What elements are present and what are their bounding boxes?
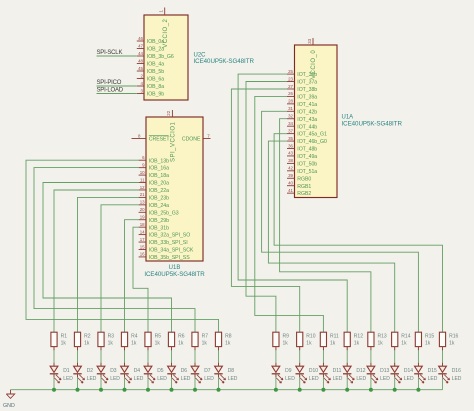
svg-text:1k: 1k — [225, 341, 231, 347]
svg-text:17: 17 — [140, 237, 145, 242]
svg-text:D15: D15 — [428, 368, 437, 374]
wire IOT_43a to R13 — [280, 119, 371, 333]
svg-text:R5: R5 — [155, 334, 162, 340]
U1A pin 40 RGB1 — [287, 181, 311, 190]
junction D13/GND — [369, 388, 373, 392]
resistor R3 1k — [98, 332, 114, 346]
svg-text:15: 15 — [140, 244, 145, 249]
U1B pin 18 IOB_31b — [139, 222, 169, 231]
LED D11 — [319, 366, 343, 383]
svg-text:26: 26 — [288, 91, 293, 96]
U1A pin 23 IOT_37a — [287, 76, 317, 85]
wire R15 to D15 — [417, 347, 419, 367]
svg-text:CRESET: CRESET — [149, 137, 171, 143]
svg-text:LED: LED — [452, 376, 462, 382]
resistor R9 1k — [273, 332, 289, 346]
U1A pin 37 IOT_45a_G1 — [287, 128, 327, 137]
svg-text:34: 34 — [288, 121, 293, 126]
IC U2C body ICE40UP5K-SG48ITR — [144, 15, 188, 100]
U1B pin 9 IOB_16a — [139, 162, 169, 171]
junction D2/GND — [76, 388, 80, 392]
svg-text:IOB_4a: IOB_4a — [147, 62, 164, 68]
wire R14 to D14 — [394, 347, 396, 367]
wire D12 to GND rail — [346, 374, 348, 390]
svg-text:1k: 1k — [178, 341, 184, 347]
junction D12/GND — [345, 388, 349, 392]
U1A pin 33 VCCIO_0 — [307, 38, 317, 79]
resistor R7 1k — [192, 332, 208, 346]
svg-text:IOB_31b: IOB_31b — [149, 225, 169, 231]
wire D10 to GND rail — [299, 374, 301, 390]
wire and label SPI-SCLK — [97, 50, 137, 56]
U1A pin 43 IOT_49a — [287, 151, 317, 160]
svg-text:R1: R1 — [61, 334, 68, 340]
svg-text:43: 43 — [288, 151, 293, 156]
svg-text:CDONE: CDONE — [182, 137, 201, 143]
svg-text:LED: LED — [380, 376, 390, 382]
svg-text:1k: 1k — [61, 341, 67, 347]
U1B pin 8 CRESET_B — [132, 133, 171, 142]
svg-text:R10: R10 — [306, 334, 315, 340]
svg-text:IOB_22a: IOB_22a — [149, 188, 169, 194]
resistor R15 1k — [415, 332, 434, 346]
svg-text:R12: R12 — [354, 334, 363, 340]
svg-text:44: 44 — [138, 51, 143, 56]
U1A pin 35 IOT_46b_G0 — [287, 136, 327, 145]
wire IOB_22a to R1 — [54, 190, 139, 332]
svg-text:1k: 1k — [131, 341, 137, 347]
U1B pin 19 IOB_29b — [139, 215, 169, 224]
svg-text:LED: LED — [63, 376, 73, 382]
svg-text:47: 47 — [138, 43, 143, 48]
LED D1 — [50, 366, 74, 383]
svg-text:27: 27 — [288, 84, 293, 89]
svg-text:SPI-PICO: SPI-PICO — [97, 80, 122, 86]
wire R6 to D6 — [171, 347, 173, 367]
U1A pin 25 IOT_36b — [287, 69, 317, 78]
U1B pin 21 IOB_23b — [139, 192, 169, 201]
wire D1 to GND rail — [53, 374, 55, 390]
U2C pin 4 IOB_8a — [137, 81, 164, 90]
svg-text:1k: 1k — [283, 341, 289, 347]
svg-text:IOB_5b: IOB_5b — [147, 69, 164, 75]
svg-text:IOB_6a: IOB_6a — [147, 77, 164, 83]
U2C pin 48 IOB_4a — [137, 58, 164, 67]
svg-text:1k: 1k — [84, 341, 90, 347]
svg-text:D1: D1 — [63, 368, 70, 374]
wire IOB_31b to R5 — [133, 227, 148, 332]
svg-text:R9: R9 — [283, 334, 290, 340]
U1A pin 41 RGB2 — [287, 188, 311, 197]
svg-text:LED: LED — [204, 376, 214, 382]
svg-text:19: 19 — [140, 215, 145, 220]
wire R3 to D3 — [100, 347, 102, 367]
svg-text:LED: LED — [356, 376, 366, 382]
svg-text:38: 38 — [288, 158, 293, 163]
svg-text:D7: D7 — [204, 368, 211, 374]
wire IOT_45a_G1 to R16 — [274, 134, 442, 333]
LED D5 — [144, 366, 168, 383]
svg-text:ICE40UP5K-SG48ITR: ICE40UP5K-SG48ITR — [194, 58, 255, 65]
U2C pin 47 IOB_2a — [137, 43, 164, 52]
U1B pin 7 CDONE — [182, 133, 211, 142]
wire R11 to D11 — [322, 347, 324, 367]
LED D8 — [214, 366, 238, 383]
svg-text:ICE40UP5K-SG48ITR: ICE40UP5K-SG48ITR — [342, 120, 403, 127]
svg-text:IOB_18a: IOB_18a — [149, 173, 169, 179]
wire D14 to GND rail — [394, 374, 396, 390]
svg-text:LED: LED — [157, 376, 167, 382]
wire D4 to GND rail — [124, 374, 126, 390]
svg-text:R8: R8 — [225, 334, 232, 340]
svg-text:IOB_9b: IOB_9b — [147, 92, 164, 98]
LED D15 — [414, 366, 438, 383]
svg-text:36: 36 — [288, 143, 293, 148]
svg-text:IOB_25b_G3: IOB_25b_G3 — [149, 210, 179, 216]
svg-text:48: 48 — [138, 58, 143, 63]
svg-text:IOT_41a: IOT_41a — [297, 102, 317, 108]
U1A pin 31 IOT_42b — [287, 106, 317, 115]
svg-text:IOT_51a: IOT_51a — [297, 169, 317, 175]
svg-text:IOT_43a: IOT_43a — [297, 117, 317, 123]
svg-text:40: 40 — [288, 181, 293, 186]
resistor R1 1k — [51, 332, 67, 346]
U1A pin 39 RGB0 — [287, 173, 311, 182]
U1B value ICE40UP5K-SG48ITR — [144, 271, 205, 278]
svg-text:11: 11 — [140, 177, 145, 182]
wire D16 to GND rail — [442, 374, 444, 390]
svg-text:IOT_37a: IOT_37a — [297, 80, 317, 86]
junction D11/GND — [321, 388, 325, 392]
U2C pin 3 IOB_9b — [137, 88, 164, 97]
svg-text:R14: R14 — [401, 334, 410, 340]
LED D10 — [296, 366, 320, 383]
svg-text:R4: R4 — [131, 334, 138, 340]
wire D6 to GND rail — [171, 374, 173, 390]
svg-text:16: 16 — [140, 252, 145, 257]
U1B pin 11 IOB_20a — [139, 177, 169, 186]
svg-text:25: 25 — [288, 69, 293, 74]
LED D14 — [391, 366, 415, 383]
svg-text:IOB_13b: IOB_13b — [149, 158, 169, 164]
U1A pin 34 IOT_44b — [287, 121, 317, 130]
svg-text:SPI_VCCIO1: SPI_VCCIO1 — [171, 121, 177, 162]
U2C pin 46 IOB_0a — [137, 36, 164, 45]
U1A pin 27 IOT_38b — [287, 84, 317, 93]
svg-text:D3: D3 — [110, 368, 117, 374]
svg-text:IOB_32a_SPI_SO: IOB_32a_SPI_SO — [149, 233, 190, 239]
U1B pin 20 IOB_25b_G3 — [139, 207, 179, 216]
wire IOB_20a to R6 — [43, 183, 172, 333]
svg-text:SPI-LOAD: SPI-LOAD — [97, 88, 124, 94]
svg-text:10: 10 — [140, 170, 145, 175]
LED D7 — [191, 366, 215, 383]
wire R1 to D1 — [53, 347, 55, 367]
svg-text:1k: 1k — [330, 341, 336, 347]
wire R7 to D7 — [194, 347, 196, 367]
svg-text:41: 41 — [288, 188, 293, 193]
svg-text:LED: LED — [428, 376, 438, 382]
resistor R16 1k — [439, 332, 458, 346]
LED D3 — [97, 366, 121, 383]
svg-text:D11: D11 — [333, 368, 342, 374]
wire D9 to GND rail — [275, 374, 277, 390]
wire D8 to GND rail — [218, 374, 220, 390]
wire D11 to GND rail — [322, 374, 324, 390]
junction D4/GND — [123, 388, 127, 392]
svg-text:IOT_38b: IOT_38b — [297, 87, 317, 93]
svg-text:IOT_42b: IOT_42b — [297, 109, 317, 115]
svg-text:LED: LED — [285, 376, 295, 382]
LED D9 — [272, 366, 296, 383]
svg-text:39: 39 — [288, 173, 293, 178]
wire D2 to GND rail — [77, 374, 79, 390]
svg-text:D14: D14 — [404, 368, 413, 374]
svg-text:1k: 1k — [155, 341, 161, 347]
junction D7/GND — [193, 388, 197, 392]
wire and label SPI-PICO — [97, 80, 137, 86]
svg-text:D2: D2 — [87, 368, 94, 374]
junction D5/GND — [146, 388, 150, 392]
wire D5 to GND rail — [147, 374, 149, 390]
svg-text:LED: LED — [333, 376, 343, 382]
U2C value ICE40UP5K-SG48ITR — [194, 58, 255, 65]
wire R16 to D16 — [442, 347, 444, 367]
svg-text:1k: 1k — [449, 341, 455, 347]
resistor R13 1k — [368, 332, 387, 346]
wire D15 to GND rail — [417, 374, 419, 390]
svg-text:18: 18 — [140, 222, 145, 227]
U2C pin 2 IOB_6a — [137, 73, 164, 82]
svg-text:D5: D5 — [157, 368, 164, 374]
svg-text:R6: R6 — [178, 334, 185, 340]
svg-text:IOT_39a: IOT_39a — [297, 95, 317, 101]
LED D6 — [167, 366, 191, 383]
wire R9 to D9 — [275, 347, 277, 367]
resistor R2 1k — [74, 332, 90, 346]
svg-text:IOT_46b_G0: IOT_46b_G0 — [297, 139, 327, 145]
svg-text:LED: LED — [87, 376, 97, 382]
wire IOT_46b_G0 to R14 — [268, 141, 394, 332]
junction D9/GND — [274, 388, 278, 392]
U1B pin 12 IOB_22a — [139, 185, 169, 194]
svg-text:R3: R3 — [108, 334, 115, 340]
U1B pin 22 SPI_VCCIO1 — [166, 110, 176, 162]
U1B pin 10 IOB_18a — [139, 170, 169, 179]
svg-text:28: 28 — [288, 99, 293, 104]
LED D13 — [367, 366, 391, 383]
wire R12 to D12 — [346, 347, 348, 367]
ground symbol GND — [3, 390, 15, 409]
wire D13 to GND rail — [370, 374, 372, 390]
svg-text:D4: D4 — [134, 368, 141, 374]
U1A pin 26 IOT_39a — [287, 91, 317, 100]
U1B pin 6 IOB_13b — [139, 155, 169, 164]
wire R10 to D10 — [299, 347, 301, 367]
U1B pin 14 IOB_32a_SPI_SO — [139, 229, 191, 238]
svg-text:IOT_48b: IOT_48b — [297, 147, 317, 153]
svg-text:20: 20 — [140, 207, 145, 212]
svg-text:14: 14 — [140, 229, 145, 234]
svg-text:LED: LED — [134, 376, 144, 382]
IC U1B body ICE40UP5K-SG48ITR — [146, 117, 203, 261]
svg-text:R16: R16 — [449, 334, 458, 340]
U1B pin 17 IOB_33b_SPI_SI — [139, 237, 188, 246]
junction D3/GND — [99, 388, 103, 392]
svg-text:IOT_45a_G1: IOT_45a_G1 — [297, 132, 327, 138]
svg-text:1k: 1k — [108, 341, 114, 347]
svg-text:D16: D16 — [452, 368, 461, 374]
svg-text:RGB1: RGB1 — [297, 184, 311, 190]
junction D10/GND — [298, 388, 302, 392]
svg-text:46: 46 — [138, 36, 143, 41]
svg-text:IOB_0a: IOB_0a — [147, 39, 164, 45]
wire R2 to D2 — [77, 347, 79, 367]
svg-text:33: 33 — [307, 38, 312, 43]
svg-text:IOB_23b: IOB_23b — [149, 196, 169, 202]
junction D14/GND — [393, 388, 397, 392]
svg-text:35: 35 — [288, 136, 293, 141]
LED D16 — [438, 366, 462, 383]
svg-text:IOB_8a: IOB_8a — [147, 84, 164, 90]
wire IOB_13b to R8 — [26, 160, 219, 332]
resistor R11 1k — [320, 332, 339, 346]
junction D8/GND — [217, 388, 221, 392]
IC U1A body ICE40UP5K-SG48ITR — [295, 45, 338, 198]
U1A pin 28 IOT_41a — [287, 99, 317, 108]
svg-text:IOB_34a_SPI_SCK: IOB_34a_SPI_SCK — [149, 248, 194, 254]
svg-text:IOB_33b_SPI_SI: IOB_33b_SPI_SI — [149, 240, 188, 246]
svg-text:RGB0: RGB0 — [297, 176, 311, 182]
svg-text:21: 21 — [140, 192, 145, 197]
svg-text:IOB_2a: IOB_2a — [147, 47, 164, 53]
svg-text:ICE40UP5K-SG48ITR: ICE40UP5K-SG48ITR — [144, 271, 205, 278]
wire IOB_24a to R3 — [101, 205, 139, 332]
svg-text:IOT_49a: IOT_49a — [297, 154, 317, 160]
svg-text:32: 32 — [288, 114, 293, 119]
junction D15/GND — [416, 388, 420, 392]
U1A pin 42 IOT_51a — [287, 166, 317, 175]
svg-text:R7: R7 — [202, 334, 209, 340]
wire IOT_36b to R12 — [238, 74, 347, 332]
svg-text:R13: R13 — [378, 334, 387, 340]
svg-text:1k: 1k — [354, 341, 360, 347]
U2C pin 44 IOB_3b_G6 — [137, 51, 174, 60]
svg-text:GND: GND — [3, 403, 15, 409]
svg-text:1k: 1k — [202, 341, 208, 347]
U1B pin 16 IOB_35b_SPI_SS — [139, 252, 191, 261]
svg-text:IOB_3b_G6: IOB_3b_G6 — [147, 54, 174, 60]
wire R5 to D5 — [147, 347, 149, 367]
svg-text:1k: 1k — [425, 341, 431, 347]
svg-text:12: 12 — [140, 185, 145, 190]
svg-text:IOB_35b_SPI_SS: IOB_35b_SPI_SS — [149, 255, 190, 261]
svg-text:23: 23 — [288, 76, 293, 81]
U1A value ICE40UP5K-SG48ITR — [342, 120, 403, 127]
svg-text:IOB_29b: IOB_29b — [149, 218, 169, 224]
U1B pin 13 IOB_24a — [139, 200, 169, 209]
svg-text:R15: R15 — [425, 334, 434, 340]
resistor R5 1k — [145, 332, 161, 346]
svg-text:D8: D8 — [228, 368, 235, 374]
resistor R8 1k — [215, 332, 231, 346]
wire IOT_42b to R15 — [262, 111, 419, 332]
U1A pin 38 IOT_50b — [287, 158, 317, 167]
svg-text:31: 31 — [288, 106, 293, 111]
svg-text:13: 13 — [140, 200, 145, 205]
resistor R6 1k — [168, 332, 184, 346]
svg-text:LED: LED — [110, 376, 120, 382]
svg-text:IOB_24a: IOB_24a — [149, 203, 169, 209]
LED D2 — [73, 366, 97, 383]
wire R4 to D4 — [124, 347, 126, 367]
svg-text:LED: LED — [404, 376, 414, 382]
wire IOB_23b to R2 — [78, 197, 139, 332]
wire IOT_37a to R9 — [246, 82, 287, 333]
wire and label SPI-LOAD — [97, 88, 137, 94]
svg-text:D9: D9 — [285, 368, 292, 374]
wire R13 to D13 — [370, 347, 372, 367]
svg-text:1k: 1k — [401, 341, 407, 347]
svg-text:1k: 1k — [306, 341, 312, 347]
svg-text:45: 45 — [138, 66, 143, 71]
U1A pin 36 IOT_48b — [287, 143, 317, 152]
svg-text:LED: LED — [181, 376, 191, 382]
wire IOB_29b to R4 — [125, 220, 139, 333]
wire R8 to D8 — [218, 347, 220, 367]
svg-text:1k: 1k — [378, 341, 384, 347]
svg-text:IOB_20a: IOB_20a — [149, 181, 169, 187]
svg-text:IOT_50b: IOT_50b — [297, 161, 317, 167]
svg-text:D12: D12 — [356, 368, 365, 374]
svg-text:R11: R11 — [330, 334, 339, 340]
junction D1/GND — [52, 388, 56, 392]
wire IOB_16a to R7 — [34, 168, 195, 333]
wire D7 to GND rail — [194, 374, 196, 390]
svg-text:LED: LED — [309, 376, 319, 382]
U2C reference designator — [194, 53, 207, 59]
svg-text:42: 42 — [288, 166, 293, 171]
svg-text:SPI-SCLK: SPI-SCLK — [97, 50, 123, 56]
U1A pin 32 IOT_43a — [287, 114, 317, 123]
svg-text:IOT_44b: IOT_44b — [297, 124, 317, 130]
LED D4 — [120, 366, 144, 383]
resistor R14 1k — [392, 332, 411, 346]
svg-text:IOT_36b: IOT_36b — [297, 72, 317, 78]
U1A reference designator — [342, 115, 354, 121]
svg-text:D10: D10 — [309, 368, 318, 374]
resistor R10 1k — [297, 332, 316, 346]
LED D12 — [343, 366, 367, 383]
U1B reference designator — [169, 265, 181, 271]
resistor R4 1k — [121, 332, 137, 346]
svg-text:D13: D13 — [380, 368, 389, 374]
svg-text:R2: R2 — [84, 334, 91, 340]
svg-text:RGB2: RGB2 — [297, 191, 311, 197]
svg-text:LED: LED — [228, 376, 238, 382]
svg-text:22: 22 — [166, 110, 171, 115]
svg-text:D6: D6 — [181, 368, 188, 374]
U2C pin 45 IOB_5b — [137, 66, 164, 75]
svg-text:IOB_16a: IOB_16a — [149, 166, 169, 172]
svg-text:37: 37 — [288, 128, 293, 133]
wire IOT_38b to R10 — [231, 89, 299, 332]
wire D3 to GND rail — [100, 374, 102, 390]
U2C pin 1 VCCIO_2 — [159, 8, 169, 48]
wire IOT_39a to R11 — [255, 96, 324, 332]
junction D6/GND — [170, 388, 174, 392]
resistor R12 1k — [344, 332, 363, 346]
